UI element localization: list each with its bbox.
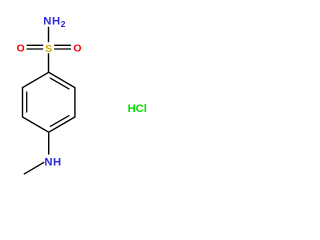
double bond S=O right bbox=[54, 44, 71, 46]
ring double bond inner line (bottom-right edge) bbox=[50, 115, 69, 126]
svg-text:NH: NH bbox=[44, 157, 61, 169]
bond S-C1 bbox=[48, 53, 50, 72]
bond N-S bbox=[48, 27, 50, 42]
double bond S=O left bbox=[27, 44, 44, 46]
svg-text:HCl: HCl bbox=[128, 103, 147, 115]
svg-text:O: O bbox=[73, 43, 81, 54]
svg-text:O: O bbox=[17, 43, 25, 54]
ring double bond inner line (top-right edge) bbox=[50, 78, 69, 89]
bond N-CH3 (methyl) bbox=[24, 162, 44, 174]
ring double bond inner line (left edge) bbox=[26, 92, 28, 113]
benzene ring outline bbox=[23, 72, 75, 132]
bond C4-N bbox=[48, 132, 50, 154]
